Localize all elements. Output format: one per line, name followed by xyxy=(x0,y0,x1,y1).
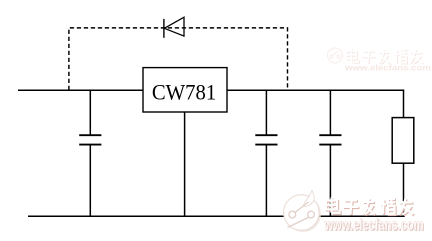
svg-text:CW781: CW781 xyxy=(152,80,216,105)
svg-text:www.elecfans.com: www.elecfans.com xyxy=(344,63,432,73)
svg-text:www.elecfans.com: www.elecfans.com xyxy=(324,217,424,234)
